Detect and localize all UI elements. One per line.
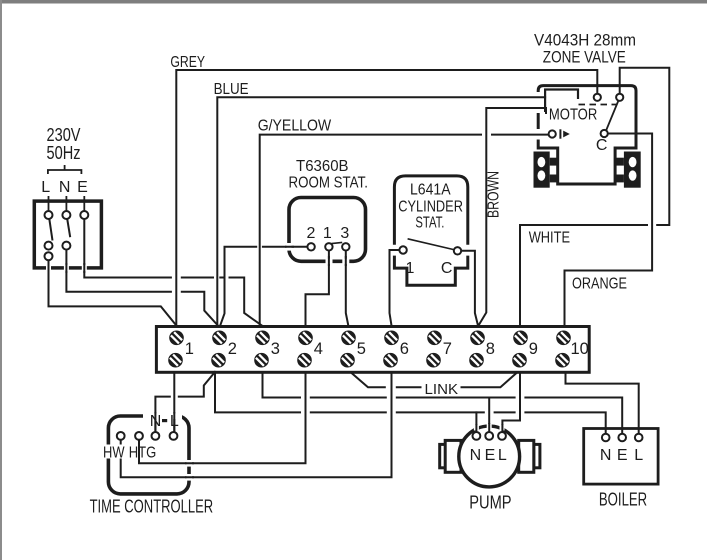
terminal 9 screws bbox=[512, 331, 528, 368]
time controller wall gaps bbox=[143, 414, 192, 481]
label GREY bbox=[170, 54, 205, 71]
svg-text:8: 8 bbox=[486, 340, 495, 358]
terminal 2 screws bbox=[211, 331, 227, 368]
mains L N E label stubs bbox=[49, 196, 85, 212]
valve terminal (white wire) bbox=[616, 94, 623, 101]
wire time controller N to terminal 2 bbox=[155, 372, 215, 432]
label MOTOR bbox=[549, 107, 597, 124]
wire terminal 1 to time controller L bbox=[173, 374, 175, 432]
boiler terminal L bbox=[635, 434, 643, 442]
mains wire stubs through box bottom bbox=[49, 263, 85, 273]
svg-text:E: E bbox=[77, 179, 88, 196]
time controller box bbox=[108, 416, 189, 494]
valve switch blade bbox=[606, 101, 618, 130]
svg-text:5: 5 bbox=[357, 340, 366, 358]
svg-text:L: L bbox=[170, 413, 179, 430]
cylinder stat outline bbox=[394, 176, 467, 285]
zone valve right pipe flange bbox=[616, 152, 641, 188]
label HW HTG bbox=[104, 445, 125, 459]
label time controller N - L bbox=[150, 413, 179, 430]
room stat blade bbox=[331, 242, 342, 243]
wire cylinder stat 1 to terminal 6 bbox=[390, 250, 400, 326]
terminal 7 screws bbox=[426, 331, 442, 368]
room stat wire stubs through walls bbox=[285, 247, 346, 266]
svg-text:TIME CONTROLLER: TIME CONTROLLER bbox=[90, 497, 214, 517]
wire from valve right terminal to WHITE run down to terminal 9 bbox=[520, 68, 669, 326]
wire terminal 10 to boiler L bbox=[566, 374, 639, 434]
boiler terminal E bbox=[618, 434, 626, 442]
mains isolator box bbox=[34, 201, 101, 271]
wire BROWN: motor to terminal 8 bbox=[479, 108, 547, 326]
pump terminal N bbox=[473, 432, 481, 440]
terminal 1 screws bbox=[168, 331, 184, 368]
svg-text:ROOM STAT.: ROOM STAT. bbox=[289, 175, 368, 192]
motor box bbox=[545, 90, 578, 113]
page frame left edge bbox=[0, 0, 2, 560]
svg-text:50Hz: 50Hz bbox=[47, 143, 81, 163]
mains switch L pole bbox=[45, 211, 53, 260]
room stat terminal 2 bbox=[307, 243, 314, 250]
boiler box bbox=[584, 429, 658, 485]
svg-text:N: N bbox=[600, 447, 612, 464]
label V4043H 28mm ZONE VALVE bbox=[534, 31, 636, 67]
label LINK bbox=[425, 381, 459, 398]
svg-text:L641A: L641A bbox=[410, 182, 451, 199]
svg-text:WHITE: WHITE bbox=[529, 229, 570, 246]
svg-text:2: 2 bbox=[228, 340, 237, 358]
label BOILER bbox=[599, 490, 647, 510]
zone valve left pipe flange bbox=[534, 152, 558, 188]
zone valve body bbox=[538, 86, 636, 184]
wire G/YELLOW: terminal 3 to motor earth pin bbox=[260, 135, 549, 326]
terminal 4 screws bbox=[297, 331, 313, 368]
svg-text:7: 7 bbox=[443, 340, 452, 358]
motor linkage dashed line bbox=[579, 104, 618, 106]
svg-text:ZONE VALVE: ZONE VALVE bbox=[543, 48, 626, 67]
wire time controller HW to terminal 6 bbox=[121, 374, 392, 478]
room stat terminal 1 bbox=[325, 243, 332, 250]
svg-text:CYLINDER: CYLINDER bbox=[398, 198, 463, 215]
label room stat terminals 2 1 3 bbox=[307, 225, 350, 242]
svg-text:1: 1 bbox=[185, 340, 194, 358]
svg-text:BOILER: BOILER bbox=[599, 490, 647, 510]
svg-text:4: 4 bbox=[314, 340, 323, 358]
svg-text:STAT.: STAT. bbox=[415, 215, 444, 232]
wire mains L to terminal 1 bbox=[49, 260, 177, 325]
room stat terminal 3 bbox=[342, 243, 349, 250]
terminal 8 screws bbox=[469, 331, 485, 368]
svg-text:ORANGE: ORANGE bbox=[572, 275, 627, 292]
neutral bus: terminal 2 to pump N and boiler N bbox=[215, 374, 606, 434]
label BROWN (vertical) bbox=[486, 171, 503, 218]
label T6360B ROOM STAT. bbox=[289, 158, 368, 192]
svg-text:2: 2 bbox=[307, 225, 316, 242]
mains E terminal bbox=[80, 211, 88, 219]
svg-text:L: L bbox=[41, 179, 50, 196]
wire room stat 2 to terminal 2 bbox=[220, 247, 307, 326]
svg-text:BLUE: BLUE bbox=[214, 81, 249, 98]
terminal 6 screws bbox=[383, 331, 399, 368]
valve terminal (grey wire) bbox=[594, 94, 601, 101]
svg-text:N: N bbox=[59, 179, 71, 196]
svg-text:E: E bbox=[617, 447, 628, 464]
svg-text:GREY: GREY bbox=[170, 54, 205, 71]
label BLUE bbox=[214, 81, 249, 98]
terminal strip bbox=[156, 327, 589, 373]
wire time controller HTG to terminal 4 bbox=[139, 374, 306, 464]
svg-text:E: E bbox=[485, 447, 496, 464]
wire mains E to terminal 3 bbox=[84, 219, 261, 326]
time controller terminal N bbox=[152, 432, 160, 440]
label 230V 50Hz bbox=[47, 125, 81, 163]
label L N E bbox=[41, 179, 88, 196]
svg-text:6: 6 bbox=[400, 340, 409, 358]
time controller terminal HTG bbox=[135, 432, 143, 440]
pump body circle bbox=[459, 426, 520, 487]
svg-text:L: L bbox=[634, 447, 643, 464]
valve terminal C bbox=[601, 130, 608, 137]
svg-text:G/YELLOW: G/YELLOW bbox=[258, 118, 332, 135]
pump N drop wire bbox=[475, 412, 477, 432]
svg-text:3: 3 bbox=[271, 340, 280, 358]
svg-text:BROWN: BROWN bbox=[486, 171, 503, 218]
wire terminal 9 to pump L bbox=[502, 374, 520, 432]
svg-text:230V: 230V bbox=[47, 125, 81, 145]
label cylinder stat 1 bbox=[406, 260, 415, 277]
page frame top edge bbox=[0, 0, 707, 4]
label valve C bbox=[596, 137, 608, 154]
time controller wire stubs through walls bbox=[155, 412, 194, 477]
terminal strip numbers 1-10 bbox=[185, 340, 589, 358]
valve earth pin bbox=[549, 129, 570, 138]
pump E drop wire bbox=[488, 398, 490, 433]
mains switch N pole bbox=[62, 211, 70, 250]
earth bus: terminal 3 to pump E and boiler E bbox=[263, 374, 623, 434]
wire GREY: zone valve terminal to terminal 1 bbox=[176, 70, 597, 326]
svg-text:T6360B: T6360B bbox=[296, 158, 349, 175]
terminal 5 screws bbox=[340, 331, 356, 368]
pump terminal L bbox=[498, 432, 506, 440]
svg-text:1: 1 bbox=[406, 260, 415, 277]
room stat wall gaps bbox=[287, 243, 350, 264]
cylinder stat terminal C bbox=[454, 247, 461, 254]
terminal 3 screws bbox=[254, 331, 270, 368]
label boiler N E L bbox=[600, 447, 643, 464]
svg-text:N: N bbox=[150, 413, 162, 430]
mains bracket bbox=[48, 165, 82, 174]
label pump N E L bbox=[470, 447, 507, 464]
pump rim gaps for wires bbox=[474, 424, 505, 431]
time controller terminal L bbox=[170, 432, 178, 440]
svg-text:1: 1 bbox=[323, 225, 332, 242]
label L641A CYLINDER STAT. bbox=[398, 182, 463, 232]
label PUMP bbox=[469, 493, 511, 513]
wire room stat 1 to terminal 4 bbox=[306, 251, 329, 326]
label TIME CONTROLLER bbox=[90, 497, 214, 517]
label G/YELLOW bbox=[258, 118, 332, 135]
svg-text:MOTOR: MOTOR bbox=[549, 107, 597, 124]
svg-text:L: L bbox=[498, 447, 507, 464]
label ORANGE bbox=[572, 275, 627, 292]
wire mains N to terminal 2 bbox=[66, 248, 218, 326]
wire room stat 3 to terminal 5 bbox=[346, 251, 349, 326]
wire cylinder stat C to terminal 8 bbox=[461, 251, 478, 326]
cylinder stat blade bbox=[408, 239, 454, 250]
boiler terminal N bbox=[602, 434, 610, 442]
svg-text:3: 3 bbox=[340, 225, 349, 242]
svg-text:10: 10 bbox=[571, 340, 589, 358]
svg-text:N: N bbox=[470, 447, 482, 464]
label WHITE bbox=[529, 229, 570, 246]
terminal 10 screws bbox=[555, 331, 571, 368]
wire BLUE: terminal 2 to motor bbox=[217, 97, 545, 325]
svg-text:HTG: HTG bbox=[129, 445, 157, 462]
svg-text:9: 9 bbox=[529, 340, 538, 358]
svg-text:HW: HW bbox=[103, 445, 125, 462]
cylinder stat terminal 1 bbox=[399, 246, 406, 253]
svg-text:C: C bbox=[441, 260, 453, 277]
LINK wire terminal 5 to terminal 9 bbox=[351, 373, 517, 388]
time controller terminal HW bbox=[117, 432, 125, 440]
svg-text:LINK: LINK bbox=[425, 381, 459, 398]
pump side lugs bbox=[440, 440, 540, 472]
wire ORANGE: valve C terminal to terminal 10 bbox=[565, 134, 653, 326]
svg-text:C: C bbox=[596, 137, 608, 154]
svg-text:PUMP: PUMP bbox=[469, 493, 511, 513]
pump terminal E bbox=[485, 432, 493, 440]
pump wire stubs into terminals bbox=[476, 423, 502, 432]
room stat box bbox=[289, 198, 366, 262]
label cylinder stat C bbox=[441, 260, 453, 277]
